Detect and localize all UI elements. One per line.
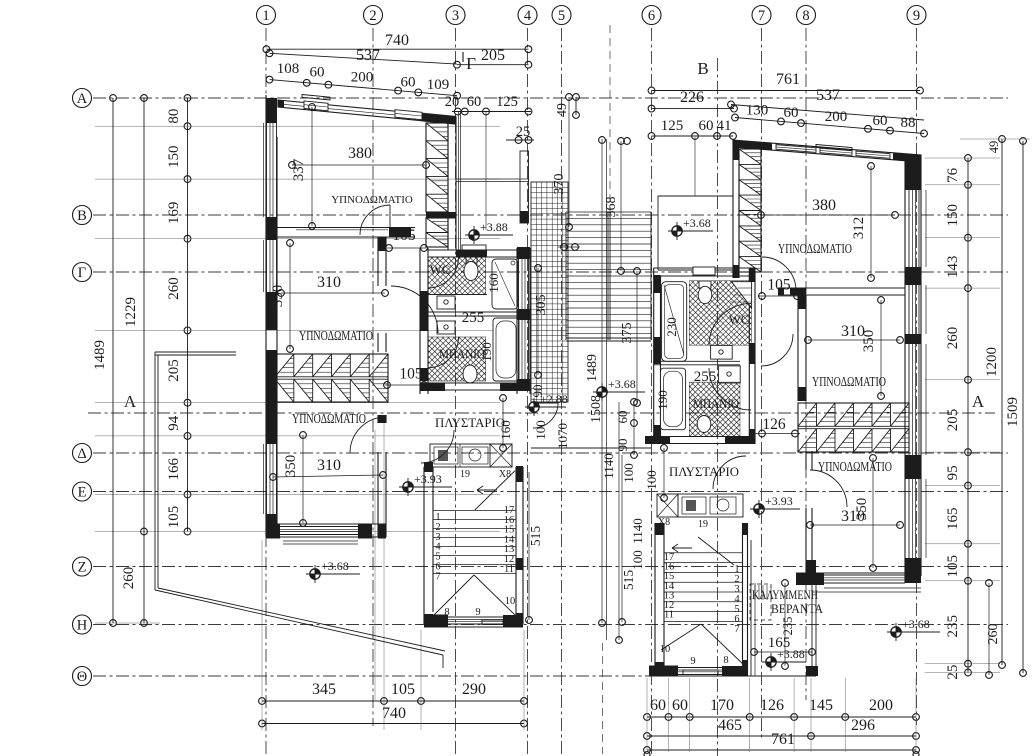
right overall dimensions 1200/1509 [1001,139,1003,665]
svg-text:150: 150 [166,145,182,168]
svg-text:515: 515 [621,570,636,591]
svg-text:205: 205 [166,359,182,382]
svg-text:76: 76 [945,167,961,183]
right unit top north wall (slanted) [733,140,921,162]
svg-text:200: 200 [869,697,893,714]
svg-text:11: 11 [664,610,674,621]
svg-text:1489: 1489 [92,340,108,370]
svg-text:537: 537 [816,87,840,104]
svg-text:105: 105 [166,506,182,529]
svg-text:515: 515 [528,526,543,547]
svg-text:105: 105 [945,555,961,578]
svg-text:235: 235 [781,617,795,636]
svg-text:200: 200 [825,109,848,125]
svg-text:170: 170 [710,697,734,714]
svg-text:WC: WC [729,313,749,327]
svg-text:Θ: Θ [77,669,87,685]
svg-text:350: 350 [861,330,877,353]
svg-text:235: 235 [945,615,961,638]
top-right dimension chains 761/226/537/130-60-200-60-88/125-60-41 [652,90,921,92]
right unit WC and bathroom block [654,267,755,269]
svg-text:230: 230 [664,317,679,337]
svg-text:+3.93: +3.93 [765,494,793,508]
svg-text:9: 9 [690,656,695,667]
svg-text:7: 7 [435,571,440,582]
svg-text:1229: 1229 [123,297,139,327]
svg-text:Δ: Δ [77,446,86,462]
svg-text:350: 350 [270,285,286,308]
svg-text:94: 94 [166,415,182,431]
level marker +2.88 [529,402,539,412]
svg-text:60: 60 [310,65,325,81]
svg-text:190: 190 [655,390,670,410]
svg-text:108: 108 [277,61,300,77]
svg-text:125: 125 [496,94,518,110]
level marker +3.88 veranda [766,657,776,667]
svg-text:ΥΠΝΟΔΩΜΑΤΙΟ: ΥΠΝΟΔΩΜΑΤΙΟ [818,459,892,474]
bottom-right dimension chains 60/60/170/126/145/200/465/296/761 [647,716,916,718]
svg-text:3: 3 [452,8,459,24]
svg-text:+3.68: +3.68 [683,216,711,230]
svg-text:B: B [697,59,708,78]
svg-text:296: 296 [851,717,875,734]
svg-text:7: 7 [734,624,739,635]
svg-text:B: B [77,208,87,224]
svg-text:11: 11 [504,564,514,575]
svg-text:60: 60 [672,697,688,714]
svg-text:+2.88: +2.88 [540,392,568,406]
svg-text:370: 370 [552,174,567,195]
svg-text:60: 60 [873,113,888,129]
svg-text:337: 337 [291,158,307,181]
left dimension 1229 and 260 [143,98,145,623]
svg-text:20: 20 [445,94,460,110]
svg-text:5: 5 [558,8,565,24]
svg-text:1140: 1140 [601,453,616,479]
level marker +3.68 right yard [891,627,901,637]
section line A-A [88,412,995,414]
svg-text:1509: 1509 [1005,397,1021,427]
svg-text:312: 312 [851,217,867,240]
svg-text:60: 60 [699,118,714,134]
right unit entry landing [658,195,733,197]
level marker +3.93 right [754,504,764,514]
level marker +3.93 left [403,482,413,492]
svg-text:88: 88 [901,115,916,131]
svg-text:226: 226 [680,89,704,106]
svg-text:49: 49 [555,103,570,117]
svg-text:+3.93: +3.93 [414,472,442,486]
svg-text:8: 8 [444,607,449,618]
svg-text:740: 740 [382,705,406,722]
grid row bubbles [73,89,92,108]
svg-text:100: 100 [644,470,659,490]
svg-text:190: 190 [479,342,494,362]
svg-text:Z: Z [78,560,87,576]
left unit door swings [360,205,390,235]
svg-text:100: 100 [533,420,548,440]
svg-text:+3.88: +3.88 [480,220,508,234]
grid column bubbles [257,6,276,25]
svg-text:A: A [972,392,985,411]
grid row lines A-Theta [93,97,1008,99]
left unit exterior west wall with windows [265,95,267,537]
svg-text:1: 1 [262,8,269,24]
svg-text:126: 126 [760,697,784,714]
svg-text:126: 126 [762,416,786,433]
svg-text:80: 80 [166,109,182,124]
central staircase dimensions [568,97,570,227]
left unit WC and bathroom block [428,249,530,251]
svg-text:+3.88: +3.88 [777,647,805,661]
svg-text:1070: 1070 [555,423,570,449]
svg-text:19: 19 [698,519,708,530]
svg-text:Χ8: Χ8 [499,469,511,480]
top-left dimension chains 740/537/205/108-60-200-60-109 [266,48,528,50]
svg-text:537: 537 [356,47,380,64]
svg-text:25: 25 [516,124,531,140]
grid column lines 1-9 [265,28,267,756]
svg-text:260: 260 [121,567,137,590]
svg-text:166: 166 [166,457,182,480]
right unit louver strip [739,149,761,272]
right unit louver band [798,403,909,452]
svg-text:465: 465 [718,717,742,734]
svg-text:1200: 1200 [984,347,1000,377]
svg-text:740: 740 [385,32,409,49]
svg-text:100: 100 [621,463,636,483]
dimension 260 right yard [988,583,990,675]
svg-text:+3.68: +3.68 [902,617,930,631]
svg-text:350: 350 [283,455,299,478]
svg-text:41: 41 [717,118,732,134]
svg-text:A: A [124,392,137,411]
svg-text:ΥΠΝΟΔΩΜΑΤΙΟ: ΥΠΝΟΔΩΜΑΤΙΟ [292,411,366,426]
svg-text:A: A [77,91,88,107]
svg-text:380: 380 [348,145,372,162]
svg-text:761: 761 [771,731,795,748]
svg-text:145: 145 [809,697,833,714]
svg-text:4: 4 [524,8,532,24]
svg-text:9: 9 [913,8,920,24]
svg-text:1489: 1489 [585,354,600,382]
svg-text:60: 60 [650,697,666,714]
svg-text:7: 7 [758,8,765,24]
svg-text:60: 60 [401,75,416,91]
right unit exterior east wall with windows [904,157,906,583]
svg-text:260: 260 [986,624,1001,645]
svg-text:ΥΠΝΟΔΩΜΑΤΙΟ: ΥΠΝΟΔΩΜΑΤΙΟ [299,328,373,343]
svg-text:Γ: Γ [466,54,476,73]
svg-text:350: 350 [854,498,870,521]
svg-text:ΠΛΥΣΤΑΡΙΟ: ΠΛΥΣΤΑΡΙΟ [669,464,739,479]
section line B [717,58,719,756]
left unit louver band [275,354,388,402]
svg-text:105: 105 [399,366,423,383]
left unit top north wall (slanted) with windows [278,100,456,124]
svg-text:380: 380 [812,197,836,214]
svg-text:2: 2 [369,8,376,24]
svg-text:761: 761 [776,71,800,88]
svg-text:345: 345 [312,681,336,698]
svg-text:60: 60 [615,411,630,424]
dimension 515 left [528,472,530,620]
left unit interior walls [275,227,415,229]
svg-text:165: 165 [945,507,961,530]
svg-text:19: 19 [460,469,470,480]
svg-text:8: 8 [802,8,809,24]
right unit door swings [762,257,796,291]
svg-text:125: 125 [661,118,684,134]
svg-text:375: 375 [620,323,635,344]
svg-text:9: 9 [475,607,480,618]
level marker +3.68 entry [672,226,682,236]
svg-text:1140: 1140 [630,518,645,544]
svg-text:255: 255 [462,310,485,326]
svg-text:E: E [78,485,87,501]
svg-text:ΥΠΝΟΔΩΜΑΤΙΟ: ΥΠΝΟΔΩΜΑΤΙΟ [778,241,852,256]
svg-text:105: 105 [767,277,791,294]
svg-text:305: 305 [534,295,549,316]
right unit stairwell with treads [654,523,656,676]
left dimension chain 80/150/169/260/205/94/166/105 [187,98,189,532]
central exterior staircase [531,182,568,402]
svg-text:49: 49 [987,141,1001,154]
covered veranda ΚΑΛΥΜΜΕΝΗ ΒΕΡΑΝΤΑ [750,540,752,676]
svg-text:205: 205 [945,409,961,432]
svg-text:260: 260 [166,277,182,300]
svg-text:260: 260 [945,327,961,350]
svg-text:160: 160 [486,273,501,293]
dimension 515 right [621,455,623,622]
svg-text:60: 60 [467,94,482,110]
svg-text:ΜΠΑΝΙΟ: ΜΠΑΝΙΟ [693,397,739,411]
svg-text:+3.68: +3.68 [608,377,636,391]
svg-text:6: 6 [648,8,655,24]
svg-text:WC: WC [430,263,450,277]
svg-text:ΠΛΥΣΤΑΡΙΟ: ΠΛΥΣΤΑΡΙΟ [435,415,505,430]
svg-text:8: 8 [723,655,728,666]
level marker +3.68 central [597,387,607,397]
svg-text:105: 105 [391,681,415,698]
left dimension 1489 [112,98,114,623]
svg-text:105: 105 [392,227,416,244]
svg-text:90: 90 [615,439,630,452]
right unit interior walls [778,287,905,289]
svg-text:60: 60 [784,105,799,121]
left unit stairwell with treads [423,467,425,624]
svg-text:10: 10 [505,596,516,607]
svg-text:310: 310 [317,274,341,291]
svg-text:290: 290 [462,681,486,698]
svg-text:310: 310 [317,457,341,474]
svg-text:130: 130 [746,102,769,118]
svg-text:150: 150 [945,204,961,227]
level marker +3.88 left [469,230,479,240]
svg-text:H: H [77,618,88,634]
svg-text:205: 205 [481,47,505,64]
site boundary lines [155,351,236,353]
svg-text:ΥΠΝΟΔΩΜΑΤΙΟ: ΥΠΝΟΔΩΜΑΤΙΟ [331,194,413,206]
svg-text:109: 109 [427,77,450,93]
bottom-left dimension chains 345/105/290/740 [262,700,524,702]
svg-text:100: 100 [630,550,645,570]
svg-text:ΥΠΝΟΔΩΜΑΤΙΟ: ΥΠΝΟΔΩΜΑΤΙΟ [812,374,886,389]
svg-text:200: 200 [351,70,374,86]
svg-text:169: 169 [166,202,182,225]
right dimension chain 76/150/143/260/205/95/165/105/235/25 [967,158,969,673]
svg-text:Γ: Γ [78,265,86,281]
svg-text:95: 95 [945,465,961,480]
svg-text:160: 160 [498,420,513,440]
svg-text:+3.68: +3.68 [321,559,349,573]
left unit upper louver strip and pier [426,123,448,212]
svg-text:25: 25 [945,665,961,680]
svg-text:143: 143 [945,256,961,279]
level marker +3.68 left yard [310,569,320,579]
svg-text:ΒΕΡΑΝΤΑ: ΒΕΡΑΝΤΑ [771,602,823,616]
